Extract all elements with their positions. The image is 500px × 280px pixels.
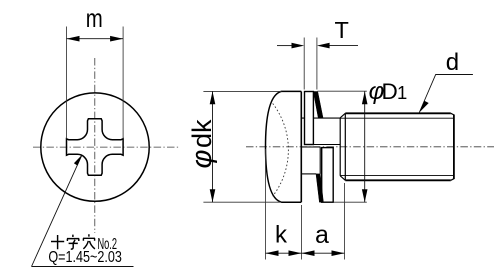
svg-text:a: a [315,221,329,249]
shank end face [453,115,455,180]
vertical centerline of front view [94,58,96,233]
dimension m: extension lines [66,27,68,139]
label phi dk (rotated) [186,119,218,169]
thread runout chamfers [340,113,345,180]
spring washer upper section [305,92,314,145]
leader d [419,75,473,113]
lower washer inner vertical [319,147,321,174]
spring washer lower split (black) [316,174,323,202]
十 [51,235,64,249]
washer split line upper (y=144.5) [305,144,341,146]
dimension T: dimension line left [277,45,292,47]
flat washer bottom edge line [301,173,316,175]
flat washer top edge line [301,117,340,119]
head bearing face [300,91,302,202]
svg-text:φ: φ [186,150,218,169]
full thread start [344,113,346,180]
end chamfer bottom [451,179,454,181]
note text: 十字穴 No.2 (kanji drawn as strokes) [51,234,95,249]
svg-text:d: d [446,49,459,76]
leader to cross recess [32,155,134,267]
dimension line k and a [266,252,345,254]
dimension T: dimension line right [330,45,359,47]
side view centerline [246,146,494,148]
svg-text:Q=1.45~2.03: Q=1.45~2.03 [48,249,122,266]
thread crest top [345,112,451,114]
head outline circle [41,93,149,201]
head crown arc (dotted) [273,104,289,197]
svg-text:k: k [275,222,288,249]
thread root bottom [340,174,453,176]
dimension phi dk: extension lines [203,90,281,92]
dimension T: extension lines [304,38,317,90]
svg-text:D: D [382,79,398,104]
phillips cross recess outline [67,119,124,176]
dimension phiD1: extension lines [318,90,367,92]
spring washer lower section [322,148,334,203]
screw head outline [266,91,302,202]
washer split line lower (y=147) [301,146,320,148]
horizontal centerline of front view [33,146,179,148]
穴 [83,234,95,249]
dimension phi dk: dimension line with arrows [212,91,214,202]
bottom dimensions k and a: extension lines [265,149,267,260]
end chamfer top [451,113,454,115]
thread root top [340,117,453,119]
dimension m: dimension line with arrows [67,38,124,40]
字 [67,235,79,250]
incomplete thread boundary [339,118,341,176]
dimension phiD1: dimension line with arrows [364,91,366,202]
spring washer upper split (black) [313,92,323,119]
svg-text:T: T [335,17,349,43]
svg-text:dk: dk [187,119,217,148]
svg-text:1: 1 [397,82,407,103]
thread crest bottom [345,179,451,181]
svg-text:m: m [86,3,103,33]
